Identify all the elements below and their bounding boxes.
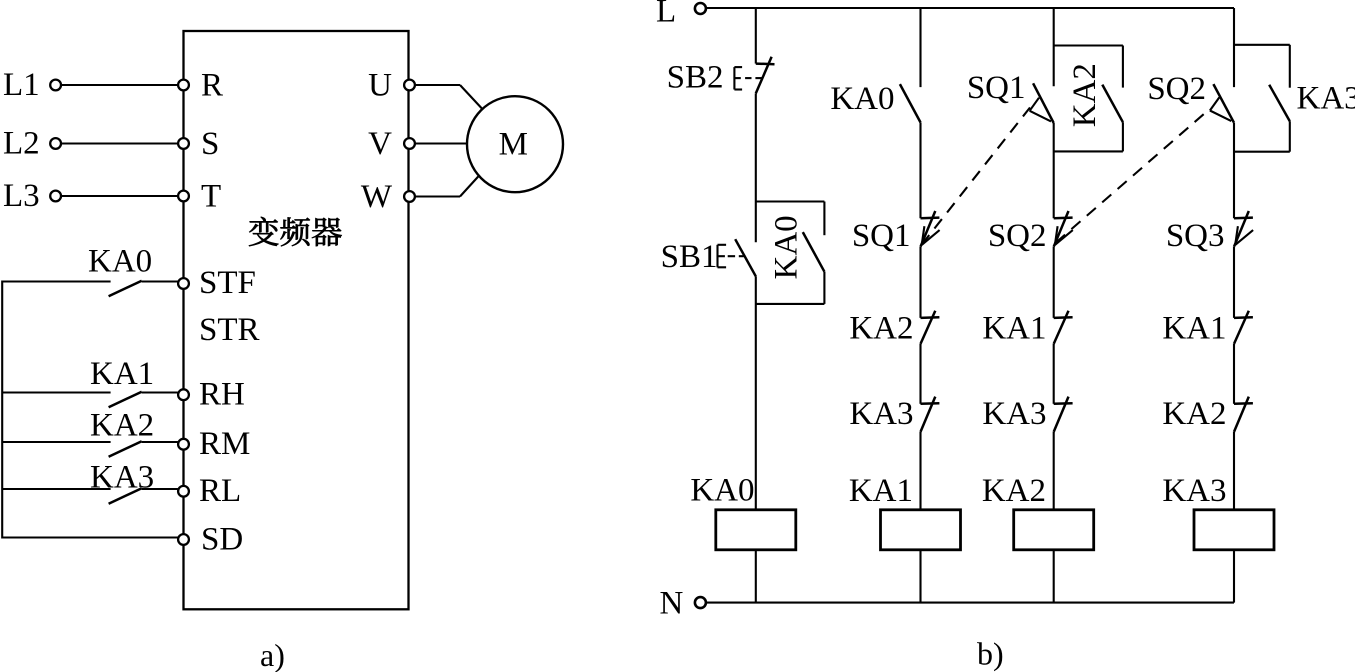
svg-text:KA2: KA2: [1162, 396, 1226, 432]
svg-text:RL: RL: [199, 473, 241, 509]
pin label S: [201, 126, 219, 162]
pin label RM: [199, 426, 250, 462]
label b): [977, 636, 1004, 672]
svg-text:KA2: KA2: [982, 473, 1046, 509]
relay contact KA2 (NO) to RM: [3, 441, 178, 457]
relay contact KA3 (NC, branch3): [1054, 397, 1073, 432]
label L2: [3, 126, 40, 162]
label KA1 (coil): [849, 473, 913, 509]
label L1: [3, 67, 40, 103]
label 变频器 (inverter): [249, 217, 342, 247]
svg-text:KA1: KA1: [849, 473, 913, 509]
wire U to motor: [415, 85, 487, 114]
svg-text:W: W: [361, 179, 393, 215]
svg-text:KA3: KA3: [90, 459, 154, 495]
pin label V: [368, 126, 392, 162]
KA2 bypass loop bottom wire: [1054, 150, 1123, 152]
svg-text:SQ3: SQ3: [1166, 218, 1225, 254]
pin label R: [201, 67, 223, 103]
pin label STF: [199, 265, 256, 301]
terminal L2 (source side): [50, 138, 61, 149]
limit switch SQ2 (NO): [1210, 84, 1234, 123]
KA3 bypass loop right wire upper: [1289, 45, 1291, 88]
KA3 bypass loop right wire lower: [1289, 121, 1291, 152]
svg-text:KA0: KA0: [88, 243, 152, 279]
wire coil KA3 to N: [1233, 550, 1235, 603]
wire SD: [3, 536, 178, 538]
wire KA1 to KA2: [1233, 344, 1235, 404]
wire KA2 to coil KA3: [1233, 432, 1235, 510]
label L: [656, 0, 676, 30]
relay coil KA1: [881, 510, 961, 550]
svg-text:RM: RM: [199, 426, 250, 462]
wire coil KA0 to N: [755, 550, 757, 603]
wire KA3 to coil KA2: [1053, 432, 1055, 510]
svg-text:KA0: KA0: [830, 81, 894, 117]
wire KA1 to KA3: [1053, 344, 1055, 404]
relay contact KA2 (NC): [921, 311, 940, 344]
relay contact KA1 (NC, branch4): [1234, 311, 1253, 344]
svg-text:SQ2: SQ2: [1147, 71, 1206, 107]
relay coil KA3: [1194, 510, 1274, 550]
svg-text:RH: RH: [199, 376, 245, 412]
svg-text:STF: STF: [199, 265, 256, 301]
KA0 self-holding loop right wire upper: [823, 202, 825, 236]
pin label STR: [199, 312, 260, 348]
label KA3 (coil): [1162, 473, 1226, 509]
relay contact KA1 (NC): [1054, 311, 1073, 344]
label KA3 (NC contact): [849, 396, 913, 432]
svg-text:S: S: [201, 126, 219, 162]
relay contact KA2 (NO, bypass): [1102, 85, 1123, 123]
mechanical link SQ1 (dashed): [922, 108, 1030, 245]
pin label T: [201, 178, 221, 214]
motor M: [467, 96, 563, 192]
wire KA0 to SQ1: [919, 122, 921, 218]
relay contact KA3 (NO, bypass): [1269, 85, 1290, 122]
label KA3 (NC contact, branch3): [982, 396, 1046, 432]
wire branch1 top: [755, 8, 757, 64]
KA3 bypass loop top wire: [1234, 44, 1290, 46]
pin label U: [368, 67, 392, 103]
wire SQ2 to KA1: [1053, 247, 1055, 318]
label KA2 (rotated): [1067, 63, 1103, 127]
svg-text:KA1: KA1: [1162, 310, 1226, 346]
pin label RH: [199, 376, 245, 412]
relay contact KA2 (NC, branch4): [1234, 397, 1253, 432]
svg-text:SB2: SB2: [667, 60, 724, 96]
label SB2: [667, 60, 724, 96]
terminal U on inverter: [404, 80, 415, 91]
svg-text:SD: SD: [201, 522, 243, 558]
label KA0: [88, 243, 152, 279]
svg-text:SQ1: SQ1: [967, 70, 1026, 106]
svg-text:KA3: KA3: [1162, 473, 1226, 509]
label KA2: [90, 408, 154, 444]
svg-text:KA2: KA2: [1067, 63, 1103, 127]
label SQ2 (NO): [1147, 71, 1206, 107]
svg-text:L2: L2: [3, 126, 40, 162]
label KA3: [90, 459, 154, 495]
inverter box (变频器 frequency inverter): [184, 31, 409, 609]
label SQ1 (NO): [967, 70, 1026, 106]
svg-text:N: N: [660, 586, 684, 622]
wire SQ3 to KA1: [1233, 247, 1235, 318]
svg-text:L1: L1: [3, 67, 40, 103]
KA3 bypass loop bottom wire: [1234, 151, 1290, 153]
label KA0 (coil): [690, 473, 754, 509]
svg-text:KA1: KA1: [982, 310, 1046, 346]
relay contact KA0 (NO): [900, 84, 921, 122]
limit switch SQ1 (NC): [921, 211, 940, 247]
KA2 bypass loop right wire lower: [1122, 122, 1124, 151]
relay contact KA3 (NC): [921, 397, 940, 432]
wire SB2 to SB1: [755, 93, 757, 242]
relay contact KA1 (NO) to RH: [3, 392, 178, 408]
svg-text:R: R: [201, 67, 223, 103]
limit switch SQ3 (NC): [1234, 211, 1253, 247]
label SQ1: [852, 218, 911, 254]
KA0 self-holding loop top wire: [756, 200, 825, 202]
terminal L3 (source side): [50, 191, 61, 202]
wire L1 to inverter: [61, 84, 178, 86]
svg-text:KA3: KA3: [982, 396, 1046, 432]
terminal T on inverter: [178, 191, 189, 202]
svg-text:U: U: [368, 67, 392, 103]
wire branch3 top: [1053, 8, 1055, 86]
terminal RM on inverter: [178, 439, 189, 450]
relay coil KA2: [1014, 510, 1094, 550]
svg-text:KA2: KA2: [90, 408, 154, 444]
relay contact KA0 (NO, self-hold): [803, 232, 825, 272]
terminal L (line): [695, 3, 706, 14]
wire coil KA2 to N: [1053, 550, 1055, 603]
terminal RL on inverter: [178, 486, 189, 497]
svg-text:KA3: KA3: [849, 396, 913, 432]
svg-text:SQ2: SQ2: [988, 218, 1047, 254]
label KA1: [90, 356, 154, 392]
limit switch SQ2 (NC): [1054, 211, 1073, 247]
terminal V on inverter: [404, 138, 415, 149]
wire L2 to inverter: [61, 142, 178, 144]
svg-text:KA1: KA1: [90, 356, 154, 392]
terminal W on inverter: [404, 191, 415, 202]
label KA2 (NC contact): [849, 310, 913, 346]
pin label SD: [201, 522, 243, 558]
pin label W: [361, 179, 393, 215]
KA2 bypass loop top wire: [1054, 44, 1123, 46]
wire SQ2 to SQ3: [1233, 123, 1235, 219]
label KA2 (NC contact, branch4): [1162, 396, 1226, 432]
wire W to motor: [415, 168, 486, 197]
wire L3 to inverter: [61, 195, 178, 197]
mechanical link SQ2 (dashed): [1056, 114, 1205, 243]
start pushbutton SB1 (NO): [718, 239, 756, 276]
svg-text:STR: STR: [199, 312, 260, 348]
wire SB1 to coil KA0: [755, 276, 757, 510]
KA2 bypass loop right wire upper: [1122, 46, 1124, 88]
terminal RH on inverter: [178, 389, 189, 400]
relay contact KA3 (NO) to RL: [3, 488, 178, 504]
label SQ2 (NC): [988, 218, 1047, 254]
pin label RL: [199, 473, 241, 509]
svg-text:V: V: [368, 126, 392, 162]
label N: [660, 586, 684, 622]
label SQ3: [1166, 218, 1225, 254]
label KA3 (contact): [1297, 80, 1355, 116]
terminal STF on inverter: [178, 278, 189, 289]
label KA0 (contact): [830, 81, 894, 117]
svg-text:b): b): [977, 636, 1004, 672]
svg-text:SQ1: SQ1: [852, 218, 911, 254]
relay contact KA0 (NO) to STF: [3, 281, 178, 297]
terminal S on inverter: [178, 138, 189, 149]
limit switch SQ1 (NO): [1030, 83, 1054, 123]
svg-text:KA0: KA0: [769, 215, 805, 279]
terminal SD on inverter: [178, 534, 189, 545]
KA0 self-holding loop right wire lower: [823, 272, 825, 304]
svg-text:a): a): [260, 637, 285, 672]
stop pushbutton SB2 (NC): [734, 57, 774, 94]
terminal R on inverter: [178, 80, 189, 91]
label KA2 (coil): [982, 473, 1046, 509]
wire V to motor: [415, 142, 469, 144]
terminal N (neutral): [695, 597, 706, 608]
svg-text:L: L: [656, 0, 676, 30]
svg-text:M: M: [499, 126, 528, 162]
svg-text:L3: L3: [3, 178, 40, 214]
svg-text:KA3: KA3: [1297, 80, 1355, 116]
L rail wire: [706, 7, 1234, 9]
KA0 self-holding loop bottom wire: [756, 303, 825, 305]
label KA0 (rotated): [769, 215, 805, 279]
wire SQ1 to SQ2: [1053, 123, 1055, 218]
wire branch2 top: [919, 8, 921, 87]
label KA1 (NC contact): [982, 310, 1046, 346]
svg-text:T: T: [201, 178, 221, 214]
svg-text:KA0: KA0: [690, 473, 754, 509]
label a): [260, 637, 285, 672]
wire KA3 to coil KA1: [919, 432, 921, 510]
svg-text:SB1: SB1: [661, 239, 718, 275]
label L3: [3, 178, 40, 214]
wire SQ1 to KA2: [919, 247, 921, 318]
label KA1 (NC contact, branch4): [1162, 310, 1226, 346]
N rail wire: [706, 602, 1234, 604]
label SB1: [661, 239, 718, 275]
terminal L1 (source side): [50, 80, 61, 91]
svg-text:KA2: KA2: [849, 310, 913, 346]
wire coil KA1 to N: [919, 550, 921, 603]
wire branch4 top: [1233, 8, 1235, 87]
relay coil KA0: [716, 510, 796, 550]
left bus wire (common): [1, 281, 3, 539]
wire KA2 to KA3: [919, 344, 921, 404]
